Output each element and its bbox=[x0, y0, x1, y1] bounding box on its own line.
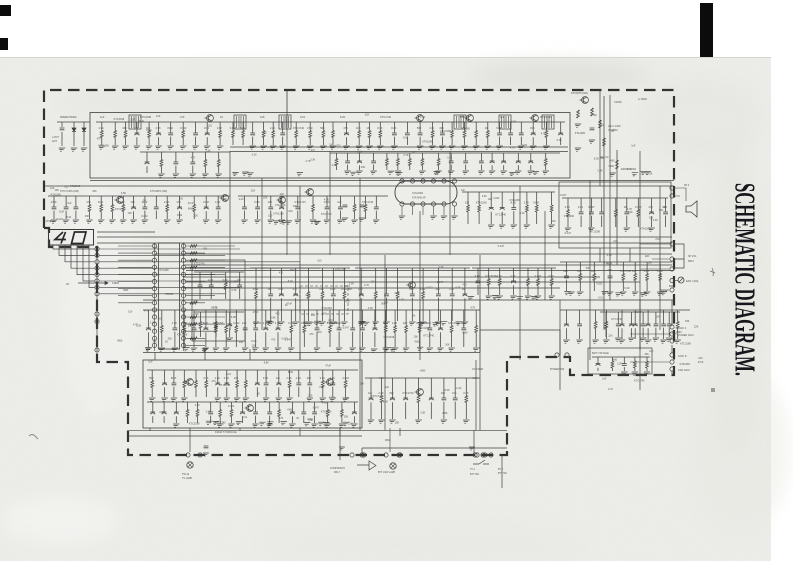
wire bbox=[609, 280, 611, 291]
svg-text:1uF: 1uF bbox=[67, 202, 72, 205]
wire bbox=[386, 153, 388, 159]
capacitor C1746 bbox=[295, 207, 300, 209]
capacitor C1734 bbox=[64, 207, 69, 209]
svg-text:470: 470 bbox=[293, 287, 298, 291]
ground bbox=[121, 146, 128, 149]
svg-text:TC9011: TC9011 bbox=[165, 293, 174, 296]
svg-text:100: 100 bbox=[195, 313, 200, 316]
connector pin bbox=[95, 260, 99, 264]
wire bbox=[361, 332, 363, 347]
wire bbox=[252, 137, 254, 145]
wire bbox=[391, 378, 393, 398]
resistor R1738 bbox=[100, 205, 103, 212]
ground bbox=[468, 447, 475, 450]
ground bbox=[296, 173, 303, 176]
ground bbox=[179, 146, 186, 149]
wire bbox=[510, 122, 512, 133]
wire bbox=[183, 243, 185, 351]
ground bbox=[432, 172, 439, 175]
wire bbox=[151, 388, 153, 398]
svg-text:3.3K: 3.3K bbox=[224, 376, 230, 380]
ground bbox=[171, 348, 178, 351]
wire bbox=[566, 262, 568, 276]
wire bbox=[125, 122, 127, 131]
ground bbox=[477, 171, 484, 174]
svg-text:8.2K: 8.2K bbox=[383, 400, 388, 403]
connector pin bbox=[95, 312, 99, 316]
resistor R1730 bbox=[544, 159, 547, 166]
svg-text:470: 470 bbox=[97, 138, 102, 141]
ground bbox=[436, 348, 443, 351]
ground bbox=[227, 424, 234, 427]
wire bbox=[225, 310, 227, 326]
svg-text:10K: 10K bbox=[223, 198, 228, 201]
wire bbox=[257, 196, 259, 207]
svg-text:470: 470 bbox=[311, 149, 316, 152]
svg-text:6.8K: 6.8K bbox=[442, 412, 447, 415]
ground bbox=[370, 349, 377, 352]
wire bbox=[464, 122, 466, 131]
capacitor C1768 bbox=[331, 294, 336, 296]
wire bbox=[374, 310, 376, 328]
ground bbox=[214, 220, 221, 223]
ground bbox=[349, 172, 356, 175]
wire bbox=[205, 388, 207, 398]
ground bbox=[175, 220, 182, 223]
wire bbox=[443, 206, 445, 215]
svg-text:1uF: 1uF bbox=[500, 115, 505, 119]
ground bbox=[342, 422, 349, 425]
svg-text:3.3K: 3.3K bbox=[522, 144, 527, 147]
ground bbox=[600, 292, 607, 295]
svg-text:BTY SW: BTY SW bbox=[498, 473, 508, 475]
capacitor C1748 bbox=[338, 207, 343, 209]
terminal bbox=[483, 453, 487, 457]
svg-text:22K: 22K bbox=[551, 220, 556, 223]
wire bbox=[316, 310, 318, 328]
capacitor C1703 bbox=[168, 133, 173, 135]
svg-text:470: 470 bbox=[279, 271, 284, 274]
wire bbox=[634, 368, 636, 371]
ground bbox=[372, 220, 379, 223]
ground bbox=[350, 424, 357, 427]
wire bbox=[101, 122, 103, 131]
ground bbox=[336, 220, 343, 223]
svg-text:4.7K: 4.7K bbox=[324, 198, 329, 201]
wire bbox=[322, 138, 324, 146]
capacitor C1816 bbox=[253, 412, 258, 414]
ground bbox=[166, 146, 173, 149]
svg-text:47uF: 47uF bbox=[655, 238, 661, 241]
wire bbox=[263, 122, 265, 131]
ground bbox=[202, 220, 209, 223]
alignment sub-box (dashed) bbox=[300, 286, 348, 314]
wire bbox=[255, 310, 257, 328]
resistor R1776 bbox=[550, 279, 553, 286]
wire bbox=[291, 416, 293, 423]
resistor R1806 bbox=[288, 381, 291, 388]
resistor R1731 bbox=[160, 160, 163, 167]
ground bbox=[388, 420, 395, 423]
wire bbox=[186, 245, 235, 247]
wire bbox=[111, 196, 113, 205]
svg-text:0.01: 0.01 bbox=[565, 205, 571, 209]
wire bbox=[299, 186, 301, 360]
ground bbox=[157, 174, 164, 177]
wire bbox=[451, 298, 453, 321]
ground bbox=[408, 322, 415, 325]
svg-text:3.3K: 3.3K bbox=[463, 391, 469, 395]
ground bbox=[266, 322, 273, 325]
terminal bbox=[670, 267, 674, 271]
resistor R1804 bbox=[236, 381, 239, 388]
wire bbox=[353, 416, 355, 423]
ground bbox=[447, 348, 454, 351]
wire bbox=[161, 310, 163, 326]
pin bbox=[152, 329, 156, 333]
ground bbox=[303, 423, 310, 426]
wire bbox=[438, 166, 440, 171]
wire bbox=[204, 349, 206, 360]
wire bbox=[205, 211, 207, 219]
wire bbox=[365, 212, 367, 220]
ground bbox=[495, 146, 502, 149]
wire bbox=[621, 328, 623, 339]
svg-text:6.8K: 6.8K bbox=[223, 278, 229, 282]
ground bbox=[241, 172, 248, 175]
resistor R1758 bbox=[190, 301, 197, 304]
svg-text:33K: 33K bbox=[644, 353, 649, 356]
wire bbox=[265, 332, 267, 347]
wire rail bbox=[128, 435, 362, 437]
wire bbox=[263, 138, 265, 146]
wire bbox=[118, 273, 152, 275]
svg-text:KTA1266: KTA1266 bbox=[177, 334, 188, 337]
resistor R1721 bbox=[475, 131, 478, 138]
transistor Q1714 bbox=[415, 389, 424, 396]
svg-text:KTC1740S (GR): KTC1740S (GR) bbox=[60, 189, 79, 193]
ground bbox=[619, 292, 626, 295]
ground bbox=[212, 348, 219, 351]
ground bbox=[191, 146, 198, 149]
wire rail bbox=[480, 329, 560, 331]
wire bus bbox=[44, 185, 674, 187]
wire bbox=[118, 245, 152, 247]
electrolytic capacitor C1716 bbox=[531, 132, 536, 134]
wire bus bbox=[155, 253, 672, 255]
transistor Q1702 bbox=[415, 115, 424, 122]
resistor R1713 bbox=[322, 131, 325, 138]
wire bbox=[472, 267, 556, 269]
svg-text:1K: 1K bbox=[268, 287, 271, 291]
connector pin bbox=[95, 319, 99, 323]
resistor R1794 bbox=[384, 326, 387, 333]
ground bbox=[644, 340, 651, 343]
wire bbox=[560, 137, 562, 145]
wire bbox=[526, 212, 528, 224]
speaker SP1 bbox=[686, 201, 697, 217]
resistor R1799 bbox=[475, 326, 478, 333]
ground bbox=[440, 216, 447, 219]
svg-text:KTC3198: KTC3198 bbox=[540, 115, 552, 119]
svg-text:8.2K: 8.2K bbox=[340, 115, 346, 119]
ground bbox=[335, 348, 342, 351]
ground bbox=[251, 424, 258, 427]
wire bbox=[422, 268, 424, 292]
svg-text:8.2K: 8.2K bbox=[59, 211, 64, 214]
resistor R1752 bbox=[535, 205, 538, 212]
wire bbox=[665, 216, 667, 227]
wire bbox=[186, 295, 215, 297]
resistor R1763 bbox=[199, 322, 202, 329]
wire bbox=[352, 332, 354, 347]
wire bbox=[225, 272, 227, 283]
wire bbox=[136, 137, 138, 145]
svg-text:560: 560 bbox=[357, 150, 362, 153]
handwritten mark bbox=[29, 435, 38, 440]
wire bbox=[438, 153, 440, 159]
ground bbox=[259, 146, 266, 149]
svg-text:4.7K: 4.7K bbox=[541, 133, 546, 136]
wire bbox=[155, 196, 157, 207]
wire bbox=[440, 332, 442, 347]
wire bbox=[330, 152, 560, 154]
wire bbox=[217, 196, 219, 207]
wire bbox=[242, 138, 244, 146]
svg-text:22K: 22K bbox=[694, 326, 699, 329]
wire bbox=[352, 310, 354, 328]
wire bbox=[616, 150, 618, 265]
capacitor C1754 bbox=[599, 212, 604, 214]
wire bbox=[397, 153, 399, 159]
resistor R1764 bbox=[215, 322, 218, 329]
ground bbox=[514, 171, 521, 174]
wire bbox=[479, 300, 481, 352]
wire bbox=[147, 369, 358, 371]
wire bbox=[665, 198, 667, 212]
svg-text:0.022: 0.022 bbox=[233, 321, 240, 325]
wire bbox=[339, 428, 341, 460]
ground bbox=[274, 348, 281, 351]
wire bbox=[399, 428, 401, 436]
wire bbox=[143, 309, 480, 311]
ground bbox=[269, 146, 276, 149]
wire bbox=[432, 122, 434, 131]
ground bbox=[279, 422, 286, 425]
ground bbox=[440, 420, 447, 423]
wire bbox=[73, 122, 75, 128]
wire bbox=[369, 122, 371, 131]
wire bbox=[99, 280, 240, 282]
electrolytic capacitor C1717 bbox=[558, 132, 563, 134]
diode D1701 bbox=[72, 128, 76, 131]
resistor R1708 bbox=[242, 131, 245, 138]
ground bbox=[499, 171, 506, 174]
svg-text:33K: 33K bbox=[586, 267, 591, 270]
resistor R1817 bbox=[417, 396, 420, 403]
ground bbox=[172, 424, 179, 427]
capacitor C1738 bbox=[154, 207, 159, 209]
svg-text:10K: 10K bbox=[203, 248, 208, 251]
svg-text:KTC3198: KTC3198 bbox=[189, 423, 200, 426]
svg-text:10K: 10K bbox=[50, 187, 55, 190]
jack terminal bbox=[670, 325, 674, 329]
wire bbox=[182, 138, 184, 146]
electrolytic capacitor C1805 bbox=[255, 382, 260, 384]
ground bbox=[62, 220, 69, 223]
capacitor C1820 bbox=[312, 412, 317, 414]
wire bbox=[299, 428, 301, 436]
capacitor C1806 bbox=[264, 383, 269, 385]
wire bbox=[261, 178, 263, 330]
wire bbox=[186, 259, 225, 261]
svg-text:120: 120 bbox=[208, 125, 213, 128]
resistor R1814 bbox=[326, 410, 329, 417]
wire bbox=[379, 122, 381, 131]
resistor R1732 bbox=[204, 160, 207, 167]
wire bbox=[605, 329, 607, 340]
capacitor C1772 bbox=[436, 294, 441, 296]
electrolytic capacitor C1791 bbox=[263, 327, 268, 329]
ground bbox=[111, 146, 118, 149]
electrolytic capacitor C1781 bbox=[620, 323, 625, 325]
wire bbox=[249, 349, 251, 360]
wire bbox=[393, 122, 395, 133]
wire bbox=[289, 388, 291, 398]
svg-text:560: 560 bbox=[149, 376, 154, 380]
svg-text:33K: 33K bbox=[389, 391, 394, 395]
capacitor C1798 bbox=[427, 328, 432, 330]
capacitor C1731 bbox=[60, 128, 65, 130]
wire bbox=[617, 328, 619, 337]
electrolytic capacitor C1719 bbox=[357, 160, 362, 162]
wire bbox=[579, 310, 581, 324]
svg-text:100: 100 bbox=[234, 376, 239, 380]
wire bbox=[374, 332, 376, 347]
wire bbox=[370, 402, 372, 419]
ground bbox=[262, 348, 269, 351]
ground bbox=[313, 221, 320, 224]
svg-text:6.8K: 6.8K bbox=[330, 287, 336, 291]
pin bbox=[452, 202, 456, 206]
svg-text:3.3K: 3.3K bbox=[511, 120, 516, 123]
wire bbox=[158, 122, 160, 133]
ground bbox=[182, 348, 189, 351]
wire bbox=[441, 122, 443, 133]
wire bbox=[567, 198, 569, 210]
svg-text:2.2K: 2.2K bbox=[270, 126, 276, 130]
wire bbox=[537, 268, 539, 279]
svg-text:3.3K: 3.3K bbox=[482, 195, 487, 198]
wire bbox=[186, 337, 205, 339]
resistor R1747 bbox=[614, 210, 617, 217]
svg-text:120: 120 bbox=[301, 321, 306, 325]
svg-text:470: 470 bbox=[180, 115, 185, 119]
electrolytic capacitor C1807 bbox=[276, 382, 281, 384]
ground bbox=[516, 297, 523, 300]
terminal bbox=[670, 186, 674, 190]
ground bbox=[450, 216, 457, 219]
svg-text:4.7K: 4.7K bbox=[403, 154, 408, 157]
pin bbox=[152, 287, 156, 291]
earphone jack EAR1 bbox=[678, 277, 684, 283]
wire bbox=[298, 370, 300, 383]
wire bbox=[210, 402, 212, 412]
wire bbox=[215, 312, 217, 322]
ground bbox=[365, 146, 372, 149]
ground bbox=[241, 348, 248, 351]
wire bbox=[173, 370, 175, 383]
wire bbox=[272, 138, 274, 146]
wire bbox=[99, 274, 225, 276]
svg-text:2.2K: 2.2K bbox=[653, 219, 658, 222]
capacitor C1835 bbox=[204, 446, 209, 448]
ground bbox=[419, 322, 426, 325]
wire bbox=[449, 151, 451, 255]
svg-text:1K: 1K bbox=[165, 340, 168, 343]
wire bbox=[393, 137, 395, 145]
ground bbox=[639, 293, 646, 296]
pin bbox=[410, 202, 414, 206]
wire bbox=[210, 272, 212, 285]
resistor R1720 bbox=[463, 131, 466, 138]
electrolytic capacitor C1766 bbox=[279, 293, 284, 295]
resistor R1739 bbox=[111, 205, 114, 212]
wire bbox=[210, 289, 212, 299]
ground bbox=[602, 340, 609, 343]
wire bbox=[559, 300, 561, 390]
wire bbox=[245, 370, 247, 381]
svg-text:0.01: 0.01 bbox=[345, 285, 350, 288]
ground bbox=[418, 171, 425, 174]
wire bbox=[517, 165, 519, 170]
svg-text:0.047: 0.047 bbox=[560, 194, 567, 197]
wire bbox=[314, 402, 316, 412]
svg-text:47uF: 47uF bbox=[698, 361, 704, 364]
svg-text:1uF: 1uF bbox=[631, 145, 636, 148]
ground bbox=[313, 348, 320, 351]
wire bbox=[186, 323, 225, 325]
svg-text:3.3K: 3.3K bbox=[368, 307, 373, 310]
svg-text:4.7K: 4.7K bbox=[208, 278, 214, 282]
wire bbox=[332, 138, 334, 146]
ground bbox=[80, 148, 87, 151]
wire bbox=[467, 212, 469, 224]
wire bbox=[239, 272, 241, 285]
ground bbox=[189, 174, 196, 177]
capacitor C1757 bbox=[663, 212, 668, 214]
resistor R1710 bbox=[272, 131, 275, 138]
wire bbox=[551, 212, 553, 224]
capacitor C1796 bbox=[360, 328, 365, 330]
wire bbox=[590, 198, 592, 212]
transistor Q1701 bbox=[205, 115, 214, 122]
svg-text:1K: 1K bbox=[366, 126, 369, 130]
svg-text:KTC1740: KTC1740 bbox=[612, 318, 623, 321]
wire bbox=[443, 402, 445, 419]
wire bbox=[527, 286, 529, 296]
wire bbox=[674, 280, 678, 282]
capacitor C1707 bbox=[280, 133, 285, 135]
resistor R1782 bbox=[659, 274, 662, 281]
wire bbox=[499, 122, 501, 133]
wire bbox=[148, 332, 150, 347]
svg-text:33K: 33K bbox=[361, 166, 366, 169]
svg-text:1K: 1K bbox=[611, 130, 614, 133]
svg-text:EAR 1 (8Ω): EAR 1 (8Ω) bbox=[686, 280, 698, 283]
svg-text:560: 560 bbox=[600, 157, 605, 160]
wire bbox=[566, 328, 568, 339]
